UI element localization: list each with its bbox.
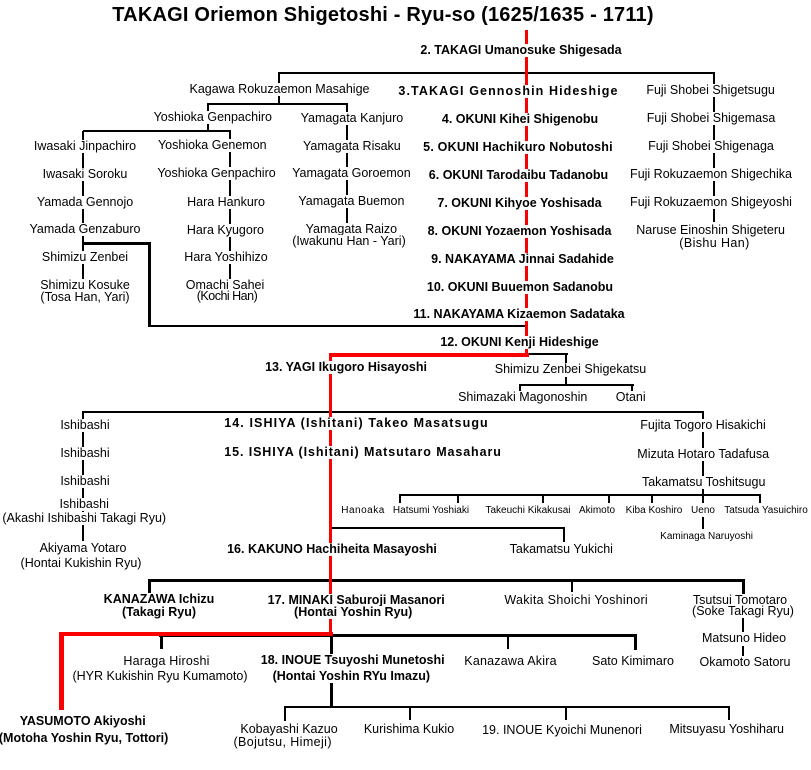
node 3 TAKAGI Gennoshin Hideshige: [396, 85, 620, 98]
node Yamada Gennojo: [35, 196, 135, 209]
wire down to Wakita: [571, 582, 573, 592]
node Shimizu Kosuke subtitle: [38, 291, 131, 304]
node Takamatsu Yukichi: [508, 543, 615, 556]
node Akimoto: [577, 505, 617, 516]
node 5 OKUNI Hachikuro Nobutoshi: [421, 141, 615, 154]
wire branch to Takamatsu Yukichi: [331, 527, 565, 529]
node Yamagata Buemon: [296, 195, 406, 208]
node Kobayashi subtitle: [231, 736, 334, 749]
node Kagawa Rokuzaemon Masahige: [188, 83, 372, 96]
node 2 TAKAGI Umanosuke Shigesada: [418, 44, 623, 57]
node Mitsuyasu Yoshiharu: [667, 723, 786, 736]
node Yamagata Risaku: [301, 140, 403, 153]
wire down to Sato Kimimaro: [634, 637, 637, 650]
node 14 ISHIYA Takeo Masatsugu: [222, 417, 491, 430]
node Yamagata Kanjuro: [299, 112, 406, 125]
node 17 subtitle: [292, 606, 414, 619]
node Yoshioka Genpachiro II: [155, 167, 277, 180]
node Takeuchi Kikakusai: [483, 505, 572, 516]
node 17 MINAKI Saburoji Masanori: [266, 594, 447, 607]
wire row19 connector: [284, 706, 730, 708]
node Yamada Genzaburo: [28, 223, 143, 236]
node Mizuta Hotaro Tadafusa: [635, 448, 771, 461]
node KANAZAWA Ichizu: [102, 593, 217, 606]
wire Shimizu Z.S. down: [565, 377, 567, 385]
node Takamatsu Toshitsugu: [640, 476, 767, 489]
wire Matsuno to Okamoto: [742, 646, 744, 656]
node Yoshioka Genpachiro: [152, 111, 274, 124]
wire junction down to node 18: [330, 637, 333, 655]
node Naruse Einoshin Shigeteru: [634, 224, 787, 237]
node 7 OKUNI Kihyoe Yoshisada: [435, 197, 603, 210]
wire branch into node 11: [148, 325, 527, 327]
node Shimizu Zenbei: [40, 251, 130, 264]
node KANAZAWA subtitle: [120, 606, 198, 619]
title: [112, 5, 654, 25]
red horizontal 12 to 13: [329, 353, 529, 357]
node Yamagata Raizo: [304, 223, 400, 236]
node Kiba Koshiro: [624, 505, 685, 516]
wire Yoshioka Genpachiro down: [207, 123, 209, 131]
wire tick 2: [457, 496, 459, 503]
node Matsuno Hideo: [700, 632, 788, 645]
node Tatsuda Yasuichiro: [722, 505, 810, 516]
wire tick 6 Ueno: [702, 496, 704, 503]
node Tsutsui subtitle: [690, 605, 796, 618]
wire row18 connector: [159, 634, 637, 637]
wire down to Tsutsui: [742, 582, 745, 594]
node Haraga Hiroshi: [121, 655, 211, 668]
node 13 YAGI Ikugoro Hisayoshi: [263, 361, 429, 374]
wire Shimazaki-Otani connector: [519, 384, 634, 386]
node 18 subtitle: [271, 670, 432, 683]
wire Ishibashi column vertical: [82, 413, 84, 541]
wire Yamada Genzaburo branch horizontal: [84, 242, 150, 245]
node Shimizu Kosuke: [38, 279, 132, 292]
node Fujita Togoro Hisakichi: [638, 419, 768, 432]
node Kanazawa Akira: [462, 655, 558, 668]
node Hatsumi Yoshiaki: [391, 505, 471, 516]
wire down to 19 INOUE: [565, 708, 567, 720]
node Otani: [614, 391, 648, 404]
node Hara Hankuro: [185, 196, 267, 209]
wire Yamada branch vertical: [148, 242, 151, 325]
node Akiyama Yotaro: [38, 542, 129, 555]
node Fuji Shobei Shigemasa: [645, 112, 778, 125]
node YASUMOTO subtitle: [0, 732, 170, 745]
node 8 OKUNI Yozaemon Yoshisada: [426, 225, 614, 238]
node Omachi Sahei: [184, 279, 267, 292]
wire tick 5: [651, 496, 653, 503]
node 6 OKUNI Tarodaibu Tadanobu: [427, 169, 610, 182]
node Yamagata Goroemon: [290, 167, 413, 180]
node Omachi Sahei subtitle: [195, 290, 260, 303]
node Yoshioka Genemon: [156, 139, 269, 152]
wire down to Shimazaki: [519, 386, 521, 393]
wire tick 7: [759, 496, 761, 503]
wire down to Takamatsu Yukichi: [563, 529, 565, 542]
node Akiyama subtitle: [19, 557, 144, 570]
node Hanoaka: [339, 505, 387, 516]
wire row14 connector: [82, 411, 704, 413]
wire tick 1: [399, 496, 401, 503]
wire tick 4: [608, 496, 610, 503]
node Ueno: [689, 505, 717, 516]
wire top connector row2 to row3: [278, 72, 715, 74]
node Haraga subtitle: [70, 670, 249, 683]
node Ishibashi IV: [58, 498, 111, 511]
wire down to Kagawa: [278, 74, 280, 85]
wire Yamagata column vertical: [346, 105, 348, 223]
node Ishibashi I: [58, 419, 111, 432]
wire Fuji column vertical: [713, 74, 715, 222]
wire Yoshioka children connector: [83, 130, 231, 132]
wire Kagawa down: [278, 95, 280, 103]
node Kobayashi Kazuo: [238, 723, 339, 736]
wire down to Yoshioka Genpachiro: [207, 105, 209, 111]
node Ishibashi IV subtitle: [0, 512, 168, 525]
node Wakita Shoichi Yoshinori: [502, 594, 650, 607]
node Hara Kyugoro: [185, 224, 266, 237]
node 11 NAKAYAMA Kizaemon Sadataka: [411, 308, 626, 321]
node 18 INOUE Tsuyoshi Munetoshi: [259, 654, 447, 667]
wire row17 connector: [148, 579, 745, 582]
red vertical down to YASUMOTO: [59, 632, 64, 710]
wire down to Kurishima: [409, 708, 411, 720]
node Okamoto Satoru: [697, 656, 792, 669]
node Sato Kimimaro: [590, 655, 676, 668]
node Kaminaga Naruyoshi: [658, 531, 755, 542]
wire tick 3: [542, 496, 544, 503]
node Fuji Rokuzaemon Shigechika: [628, 168, 794, 181]
wire down to Haraga: [160, 637, 163, 649]
wire down to Kanazawa Akira: [507, 637, 509, 649]
wire down to KANAZAWA: [148, 582, 151, 594]
node 9 NAKAYAMA Jinnai Sadahide: [429, 253, 616, 266]
wire Iwasaki column vertical: [82, 131, 84, 281]
node 12 OKUNI Kenji Hideshige: [438, 336, 600, 349]
node 16 KAKUNO Hachiheita Masayoshi: [225, 543, 439, 556]
node Fuji Shobei Shigetsugu: [644, 84, 777, 97]
node Ishibashi II: [58, 447, 111, 460]
wire Kagawa children connector: [207, 103, 348, 105]
red main lineage vertical 2-12: [525, 30, 528, 357]
node Ishibashi III: [58, 475, 111, 488]
node 10 OKUNI Buuemon Sadanobu: [425, 281, 615, 294]
node Iwasaki Jinpachiro: [32, 140, 138, 153]
red horizontal to YASUMOTO branch: [59, 632, 333, 636]
wire down to Shimizu Zenbei Shigekatsu: [565, 353, 567, 363]
node 19 INOUE Kyoichi Munenori: [480, 724, 644, 737]
wire Ueno to Kaminaga: [702, 517, 704, 529]
node Iwasaki Soroku: [41, 168, 130, 181]
wire Hara column vertical: [229, 131, 231, 280]
node YASUMOTO Akiyoshi: [18, 715, 148, 728]
node Hara Yoshihizo: [182, 251, 269, 264]
wire down to Otani: [631, 386, 633, 393]
node Fuji Rokuzaemon Shigeyoshi: [628, 196, 794, 209]
wire Fujita-Takamatsu column vertical: [702, 413, 704, 495]
node Fuji Shobei Shigenaga: [646, 140, 776, 153]
node Shimizu Zenbei Shigekatsu: [493, 363, 648, 376]
node 15 ISHIYA Matsutaro Masaharu: [222, 446, 504, 459]
red vertical 13 to 17: [329, 353, 332, 636]
node Yamagata Raizo subtitle: [290, 235, 407, 248]
node Naruse subtitle: [677, 237, 751, 250]
wire stub to Shimizu Zenbei Shigekatsu: [527, 353, 568, 355]
node Tsutsui Tomotaro: [691, 594, 789, 607]
wire down to Kobayashi: [284, 708, 286, 721]
wire node 18 down: [330, 683, 333, 706]
wire Takamatsu children connector: [399, 494, 761, 496]
node Shimazaki Magonoshin: [456, 391, 589, 404]
node 4 OKUNI Kihei Shigenobu: [440, 113, 600, 126]
wire down to Mitsuyasu: [728, 708, 730, 720]
wire Tsutsui to Matsuno: [742, 617, 744, 632]
node Kurishima Kukio: [362, 723, 456, 736]
